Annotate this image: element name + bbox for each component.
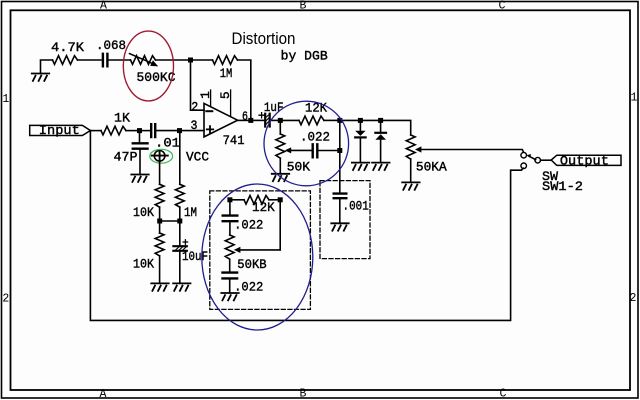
svg-text:.022: .022 (300, 129, 330, 144)
wire (229, 222, 231, 235)
ground (under 10uF) (173, 283, 190, 290)
wire (339, 153, 341, 192)
resistor R 1M feedback (213, 56, 238, 65)
wire (279, 159, 281, 174)
wire (41, 60, 53, 74)
svg-text:.068: .068 (96, 38, 126, 53)
VCC supply symbol (152, 151, 168, 162)
svg-text:1K: 1K (114, 110, 130, 125)
wire (159, 161, 161, 184)
switch SW contact upper (521, 152, 527, 158)
svg-text:2: 2 (191, 99, 198, 114)
node junction (337, 148, 342, 153)
node junction (278, 118, 283, 123)
svg-text:12K: 12K (252, 200, 275, 215)
wiper arrow 50KA and wire to switch (415, 146, 421, 152)
wire (193, 59, 213, 61)
dashed box (.001 option) (320, 181, 370, 259)
ground (under D1) (352, 163, 369, 170)
svg-text:10K: 10K (133, 256, 154, 271)
dashed box (tone option) (210, 191, 311, 310)
ground (bias divider) (151, 283, 168, 290)
potentiometer 50KA (406, 135, 415, 159)
node junction (tone box right) (278, 197, 283, 202)
ground (under D2) (372, 163, 389, 170)
node junction (358, 118, 363, 123)
node junction (177, 128, 182, 133)
svg-text:1M: 1M (184, 205, 197, 220)
svg-text:3: 3 (191, 118, 198, 133)
wire (279, 202, 281, 250)
capacitor 10uF polarized (173, 240, 187, 251)
wire bypass from lower contact to input (90, 131, 523, 321)
wire (283, 119, 299, 121)
capacitor .022 tone upper (223, 216, 238, 222)
resistor R 1M bias (175, 184, 184, 207)
red ellipse annotation (500KC) (123, 31, 173, 101)
wire (162, 220, 178, 222)
svg-text:1: 1 (631, 92, 638, 105)
wire (233, 199, 245, 201)
wire pin2 (191, 63, 205, 111)
wire (383, 120, 410, 135)
capacitor .01 (151, 124, 155, 137)
svg-text:B: B (300, 388, 307, 400)
svg-text:SW1-2: SW1-2 (542, 179, 583, 194)
Input tag (30, 125, 91, 135)
svg-text:Distortion: Distortion (232, 30, 296, 48)
svg-text:4.7K: 4.7K (51, 40, 84, 55)
svg-text:1: 1 (2, 93, 9, 106)
node junction (137, 128, 142, 133)
ground (under 50K) (272, 174, 289, 181)
node junction (177, 219, 182, 224)
svg-text:50KA: 50KA (416, 159, 447, 174)
wire (229, 202, 231, 214)
wire (90, 130, 101, 132)
potentiometer 500KC (131, 56, 156, 65)
wire (156, 59, 189, 61)
wire (339, 123, 341, 148)
wire (159, 224, 161, 234)
ground (tone box) (221, 293, 238, 300)
switch blade (529, 156, 536, 160)
switch SW contact lower (521, 163, 527, 169)
svg-text:50KB: 50KB (237, 257, 266, 272)
wire (541, 159, 552, 161)
wire (179, 207, 181, 218)
resistor R 10K lower (155, 233, 164, 256)
wire (229, 260, 231, 272)
wire 1M bias column (179, 133, 181, 184)
wire (410, 159, 412, 182)
op-amp U1 741 (204, 103, 238, 136)
svg-text:2: 2 (630, 292, 637, 305)
wire (269, 199, 278, 201)
wire (179, 224, 181, 246)
resistor R 4.7K (53, 56, 78, 65)
node junction (188, 58, 193, 63)
capacitor .068 (103, 54, 108, 67)
resistor R 12K tone (244, 196, 269, 205)
wire (139, 150, 141, 175)
wire (109, 59, 130, 61)
wiper arrow 50K (285, 147, 292, 153)
svg-text:.01: .01 (155, 136, 180, 151)
capacitor 1uF polarized (259, 113, 270, 127)
svg-text:A: A (100, 388, 107, 400)
wire (363, 119, 378, 121)
diode D1 (359, 123, 361, 131)
svg-text:Output: Output (560, 153, 609, 168)
wire (78, 59, 102, 61)
svg-text:by DGB: by DGB (281, 49, 328, 64)
svg-text:500KC: 500KC (137, 70, 176, 85)
wire (159, 207, 161, 218)
capacitor .001 (334, 194, 347, 199)
blue ellipse annotation (tone box) (202, 184, 313, 330)
svg-text:47P: 47P (114, 150, 138, 165)
capacitor 47P (133, 143, 148, 148)
resistor R 1K (101, 126, 126, 135)
svg-text:A: A (100, 0, 107, 13)
svg-text:6: 6 (242, 109, 248, 124)
potentiometer 50K (276, 134, 285, 158)
svg-text:10K: 10K (133, 205, 154, 220)
ground (under 4.7K input) (32, 74, 49, 81)
svg-text:1M: 1M (220, 66, 233, 81)
resistor R 10K upper (155, 184, 164, 207)
svg-text:VCC: VCC (186, 150, 209, 165)
green circle annotation (150, 149, 173, 163)
wire pin6 (238, 119, 248, 121)
svg-text:C: C (499, 0, 506, 13)
svg-text:B: B (300, 0, 307, 13)
wiper arrow 50KB (234, 247, 241, 253)
svg-text:2: 2 (2, 293, 9, 306)
ground (under 47P) (131, 175, 148, 182)
potentiometer 50K branch wire (279, 123, 281, 134)
svg-text:50K: 50K (287, 159, 310, 174)
wire (238, 60, 251, 118)
svg-text:.022: .022 (234, 218, 263, 233)
wire (179, 252, 181, 283)
node junction (tone box left) (227, 197, 232, 202)
wire (126, 130, 137, 132)
node junction (157, 219, 162, 224)
svg-text:.001: .001 (343, 199, 369, 214)
wire (254, 119, 264, 121)
svg-text:Input: Input (39, 123, 80, 138)
ground (under 50KA) (402, 182, 419, 189)
svg-text:5: 5 (218, 91, 233, 99)
wire pin3 (182, 130, 204, 132)
wire (319, 150, 337, 152)
svg-text:1: 1 (198, 91, 213, 99)
resistor R 12K (299, 116, 324, 125)
svg-text:741: 741 (223, 133, 245, 148)
wire (157, 130, 177, 132)
switch SW pole (535, 157, 541, 163)
potentiometer 50KB (225, 235, 234, 259)
wire (142, 130, 150, 132)
svg-text:10uF: 10uF (182, 249, 208, 264)
wire (159, 256, 161, 283)
svg-text:1uF: 1uF (264, 100, 284, 115)
wire (324, 119, 337, 121)
ground (under .001) (331, 223, 348, 230)
diode D2 (380, 123, 382, 132)
blue circle annotation (50K) (264, 101, 349, 186)
node junction (337, 118, 342, 123)
wire (343, 119, 359, 121)
wire (339, 200, 341, 224)
svg-text:C: C (500, 388, 507, 400)
capacitor .022 (50K wiper) (313, 144, 318, 157)
wire (271, 119, 278, 121)
node junction (248, 118, 253, 123)
wire (229, 280, 231, 293)
capacitor 47P branch wire (139, 133, 141, 142)
capacitor .022 tone lower (223, 273, 238, 279)
node junction (378, 118, 383, 123)
Output tag (551, 155, 621, 165)
